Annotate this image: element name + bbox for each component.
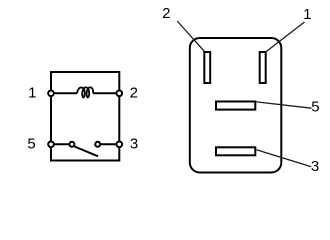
- svg-text:3: 3: [311, 158, 319, 175]
- svg-text:1: 1: [303, 6, 311, 23]
- svg-text:2: 2: [130, 84, 138, 101]
- svg-text:5: 5: [311, 99, 319, 116]
- svg-text:3: 3: [130, 136, 138, 153]
- svg-text:2: 2: [162, 5, 170, 22]
- svg-text:5: 5: [27, 136, 35, 153]
- svg-text:1: 1: [28, 84, 36, 101]
